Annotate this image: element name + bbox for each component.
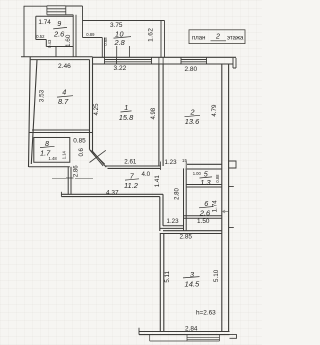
- svg-text:1.23: 1.23: [167, 218, 180, 225]
- svg-text:2.6: 2.6: [199, 208, 211, 217]
- exterior tick on right wall (upper): [229, 186, 234, 188]
- svg-text:1.74: 1.74: [212, 200, 219, 213]
- right outer wall (double line): [222, 64, 229, 332]
- room 6 fraction bar: [199, 207, 214, 208]
- room 4 fraction bar: [57, 96, 73, 97]
- svg-text:4.98: 4.98: [151, 107, 157, 119]
- corridor top wall (left segment): [106, 166, 161, 168]
- top wall junction marks of interior wall: [159, 57, 163, 64]
- balcony 9 outer left wall: [23, 6, 25, 57]
- room 8 fraction bar: [40, 146, 55, 147]
- svg-text:3.53: 3.53: [39, 89, 46, 102]
- wall right of room 8 going down: [68, 167, 71, 195]
- svg-text:0.85: 0.85: [73, 138, 86, 145]
- svg-text:1.50: 1.50: [197, 218, 210, 225]
- svg-text:2.85: 2.85: [180, 234, 193, 241]
- svg-text:2: 2: [215, 34, 220, 41]
- svg-text:0.88: 0.88: [215, 174, 220, 183]
- X mark on diagonal: [90, 150, 106, 164]
- svg-text:0.68: 0.68: [103, 37, 108, 46]
- svg-text:2.6: 2.6: [53, 29, 65, 38]
- svg-text:14.5: 14.5: [185, 279, 201, 288]
- balcony 10 step wall: [83, 38, 105, 58]
- svg-text:этажа: этажа: [227, 36, 244, 42]
- window of balcony 9 (ladder symbol): [47, 6, 66, 15]
- room 8 box: [34, 138, 70, 163]
- svg-text:1.23: 1.23: [165, 159, 178, 166]
- svg-text:2.46: 2.46: [58, 63, 71, 70]
- svg-text:2.61: 2.61: [124, 158, 137, 165]
- entry hall bottom wall: [160, 226, 184, 229]
- svg-text:9: 9: [57, 19, 61, 28]
- svg-text:h=2.63: h=2.63: [196, 310, 216, 317]
- corridor bottom wall left end cap: [60, 192, 62, 197]
- svg-text:5.10: 5.10: [213, 269, 220, 282]
- entry arrow: [223, 210, 229, 213]
- balcony 10 right wall (double line): [161, 21, 165, 58]
- window W1 on top wall (room 1): [105, 57, 152, 64]
- svg-text:8: 8: [45, 139, 49, 148]
- svg-text:15.8: 15.8: [119, 113, 134, 122]
- room 8 bottom wall second line: [29, 166, 70, 168]
- room 2 fraction bar: [185, 115, 201, 116]
- svg-text:2: 2: [190, 108, 195, 117]
- room 3 bottom right foot: [230, 335, 237, 339]
- wall between room 5 and room 6: [186, 185, 222, 188]
- room 3 fraction bar: [183, 277, 200, 278]
- wall left of rooms 5 and 6: [184, 168, 187, 230]
- main top wall left thin segment: [21, 57, 93, 60]
- svg-text:2.86: 2.86: [73, 165, 79, 177]
- door leaf dash in corridor: [52, 177, 93, 179]
- balcony 9 interior box: [36, 16, 73, 46]
- room 9 fraction bar: [53, 27, 67, 29]
- svg-text:4.79: 4.79: [211, 104, 218, 117]
- svg-text:1: 1: [124, 103, 128, 112]
- svg-text:11.2: 11.2: [124, 181, 138, 190]
- svg-text:0.43: 0.43: [47, 39, 52, 48]
- room 10 fraction bar: [114, 37, 132, 39]
- svg-text:1.41: 1.41: [154, 175, 161, 188]
- room 3 top wall: [160, 231, 222, 234]
- svg-text:1.14: 1.14: [62, 150, 67, 159]
- balcony 10 outer top wall: [83, 20, 165, 22]
- corridor bottom wall: [61, 194, 163, 196]
- room 3 left wall: [160, 234, 164, 332]
- exterior pilaster box on right wall: [229, 161, 236, 168]
- svg-text:3.22: 3.22: [114, 65, 127, 72]
- room 7 fraction bar: [125, 179, 139, 180]
- balcony slab strip below room 3: [150, 335, 220, 341]
- svg-text:1.3: 1.3: [200, 178, 211, 187]
- svg-text:2.8: 2.8: [114, 38, 126, 47]
- joint tick on that wall: [66, 177, 74, 179]
- balcony 9 top-right wall (double line): [66, 6, 83, 15]
- svg-text:5.11: 5.11: [164, 270, 171, 282]
- svg-text:0.52: 0.52: [36, 34, 45, 39]
- room 4 bottom wall: [29, 130, 93, 133]
- entry jog wall going down: [160, 194, 163, 231]
- top wall right end cap: [233, 58, 236, 68]
- chamfer diagonal wall: [90, 150, 107, 168]
- svg-text:0.89: 0.89: [86, 32, 95, 37]
- svg-text:2.80: 2.80: [174, 188, 180, 200]
- svg-text:3.75: 3.75: [110, 22, 123, 29]
- svg-text:4.37: 4.37: [106, 189, 119, 196]
- svg-text:4.0: 4.0: [142, 171, 151, 178]
- main top wall right segment (hollow): [93, 57, 237, 64]
- plan title box: [189, 30, 245, 44]
- svg-text:1.60: 1.60: [65, 34, 72, 47]
- wall between room 4 and room 1: [90, 57, 93, 151]
- balcony 9 outer top wall: [24, 5, 47, 7]
- room 3 bottom wall left cap: [138, 328, 140, 335]
- svg-text:0.6: 0.6: [79, 147, 85, 156]
- room 3 bottom wall: [139, 332, 230, 335]
- svg-text:8.7: 8.7: [58, 97, 69, 106]
- svg-text:15: 15: [182, 158, 187, 163]
- balcony 9 door jamb: [55, 47, 57, 58]
- svg-text:2.84: 2.84: [185, 326, 198, 333]
- room 6 bottom wall: [184, 216, 222, 219]
- left outer wall (double line): [29, 57, 38, 167]
- svg-text:1.74: 1.74: [38, 19, 51, 26]
- svg-text:план: план: [192, 36, 205, 42]
- corridor top wall (right segment): [187, 164, 222, 169]
- exterior tick on right wall (lower): [229, 227, 234, 229]
- svg-text:4: 4: [62, 88, 66, 97]
- window W2 on top wall (room 2): [181, 57, 207, 64]
- svg-text:2.80: 2.80: [185, 66, 198, 73]
- svg-text:13.6: 13.6: [185, 117, 200, 126]
- room 1 fraction bar: [121, 111, 132, 112]
- room 5 fraction bar: [200, 177, 213, 178]
- svg-text:1.48: 1.48: [49, 156, 58, 161]
- balcony 9 right wall (double line): [73, 15, 76, 57]
- balcony 10 door jambs: [117, 46, 130, 57]
- svg-text:4.25: 4.25: [93, 103, 100, 116]
- door jamb ticks at corridor opening: [161, 162, 187, 171]
- shared edge balcony 9 / balcony 10: [82, 6, 84, 38]
- svg-text:1.00: 1.00: [193, 171, 202, 176]
- svg-text:1.62: 1.62: [147, 28, 154, 42]
- wall between room 1 and room 2: [159, 64, 163, 166]
